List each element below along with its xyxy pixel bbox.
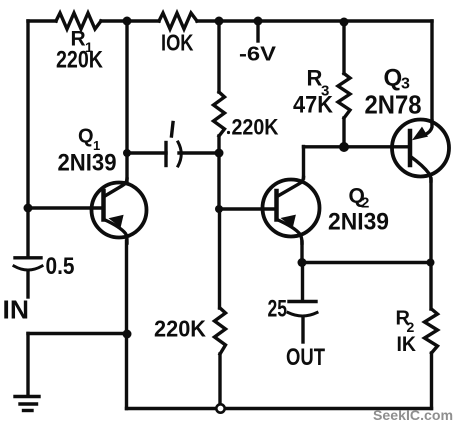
- svg-text:IK: IK: [397, 333, 417, 356]
- svg-text:25: 25: [268, 296, 288, 323]
- svg-text:-6V: -6V: [239, 44, 277, 66]
- svg-text:IOK: IOK: [161, 30, 194, 56]
- svg-text:IN: IN: [3, 295, 29, 325]
- svg-text:2N78: 2N78: [365, 90, 422, 120]
- svg-text:2NI39: 2NI39: [58, 150, 117, 177]
- svg-text:220K: 220K: [232, 115, 279, 140]
- svg-text:Q: Q: [78, 126, 94, 148]
- svg-text:Q: Q: [384, 65, 403, 92]
- svg-text:2NI39: 2NI39: [328, 209, 389, 236]
- svg-text:47K: 47K: [293, 92, 334, 119]
- svg-text:0.5: 0.5: [46, 253, 75, 280]
- svg-text:220K: 220K: [154, 316, 206, 342]
- svg-text:SeekIC.com: SeekIC.com: [373, 407, 453, 423]
- svg-text:OUT: OUT: [286, 344, 325, 371]
- svg-text:220K: 220K: [56, 47, 104, 74]
